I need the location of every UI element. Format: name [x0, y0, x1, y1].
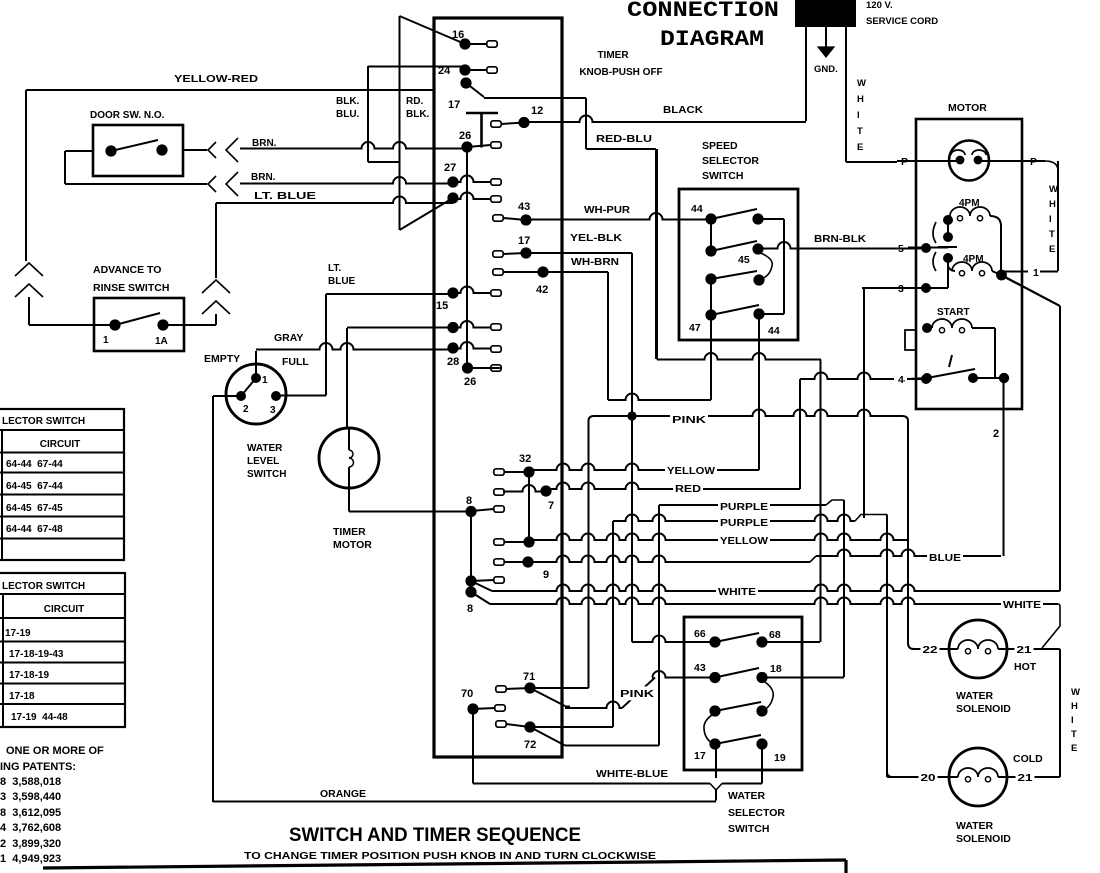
wsel contact 43	[709, 672, 720, 683]
label WHITE-BLUE	[594, 766, 670, 780]
svg-text:PINK: PINK	[672, 414, 707, 426]
svg-text:8 3,612,095: 8 3,612,095	[0, 807, 61, 819]
svg-text:1A: 1A	[155, 336, 168, 347]
wire contact 17 RED-BLU drop	[484, 97, 586, 99]
motor start switch	[922, 373, 932, 383]
motor notch	[905, 330, 916, 350]
svg-text:DIAGRAM: DIAGRAM	[660, 27, 764, 52]
svg-text:21: 21	[1018, 772, 1033, 784]
svg-text:66: 66	[694, 628, 706, 640]
rinse switch contacts	[109, 319, 120, 330]
svg-text:16: 16	[452, 29, 464, 41]
wire WHITE2	[471, 592, 490, 604]
label ORANGE	[318, 786, 368, 800]
svg-text:BLUE: BLUE	[929, 552, 961, 564]
water level contacts	[251, 373, 261, 383]
wire YELLOW2	[529, 534, 908, 541]
connector chevrons left	[15, 263, 43, 276]
svg-text:WHITE: WHITE	[1003, 599, 1041, 611]
svg-text:YEL-BLK: YEL-BLK	[570, 233, 623, 244]
svg-text:YELLOW-RED: YELLOW-RED	[174, 73, 258, 85]
svg-text:17-19: 17-19	[5, 628, 31, 639]
door switch contacts	[105, 145, 116, 156]
svg-text:T: T	[1071, 729, 1077, 740]
svg-text:32: 32	[519, 453, 531, 465]
svg-text:8: 8	[467, 603, 473, 615]
svg-text:SOLENOID: SOLENOID	[956, 833, 1011, 845]
svg-text:44: 44	[691, 203, 703, 215]
wire motor 2 riser	[1003, 378, 1005, 556]
speed wire B4	[759, 313, 784, 315]
svg-text:GND.: GND.	[814, 64, 838, 75]
svg-text:GRAY: GRAY	[274, 332, 303, 344]
svg-text:26: 26	[459, 130, 471, 142]
contact 71	[496, 686, 506, 692]
contact 12	[491, 121, 501, 127]
svg-text:SWITCH: SWITCH	[702, 170, 743, 182]
svg-text:W: W	[1071, 687, 1080, 698]
svg-text:44: 44	[768, 325, 780, 337]
svg-text:WH-PUR: WH-PUR	[584, 205, 631, 216]
svg-text:RED-BLU: RED-BLU	[596, 133, 652, 145]
motor junction 1	[996, 270, 1007, 281]
wire YELLOW upper	[529, 464, 759, 471]
wire water level 1 GRAY to contact 28	[255, 351, 257, 378]
svg-text:ONE OR MORE OF: ONE OR MORE OF	[6, 745, 104, 757]
svg-text:22: 22	[923, 644, 938, 656]
contact 8a	[465, 506, 476, 517]
label RED	[673, 481, 703, 495]
label WH-PUR	[582, 203, 632, 217]
motor coil 4PM lower	[947, 258, 949, 266]
contact 8c	[465, 586, 476, 597]
door switch box	[93, 125, 183, 176]
contact 15a	[447, 287, 458, 298]
motor centrifugal switch	[943, 215, 953, 225]
label 21 hot	[1015, 642, 1034, 656]
wsel curve 18-B3	[762, 680, 773, 711]
svg-text:PURPLE: PURPLE	[720, 501, 768, 513]
wire BLUE	[528, 556, 810, 563]
svg-text:T: T	[1049, 229, 1055, 240]
svg-text:TIMER: TIMER	[333, 526, 366, 538]
svg-text:47: 47	[689, 322, 701, 334]
speed contact row4	[705, 309, 716, 320]
svg-text:70: 70	[461, 688, 473, 700]
svg-text:YELLOW: YELLOW	[720, 535, 768, 547]
svg-text:1: 1	[103, 335, 109, 346]
svg-text:SELECTOR: SELECTOR	[728, 807, 785, 819]
svg-text:W: W	[857, 78, 866, 89]
label WH-BRN	[569, 255, 621, 268]
svg-text:BLUE: BLUE	[328, 276, 356, 287]
wire 22 feed	[907, 420, 909, 643]
wire LT.BLUE to contact 27b	[216, 197, 453, 204]
wire PURPLE2	[613, 515, 855, 522]
speed vertical B4 down	[758, 314, 760, 470]
svg-text:PURPLE: PURPLE	[720, 517, 768, 529]
svg-text:P: P	[901, 156, 908, 168]
svg-text:BRN-BLK: BRN-BLK	[814, 234, 867, 245]
svg-text:8: 8	[466, 495, 472, 507]
svg-text:8 3,588,018: 8 3,588,018	[0, 776, 61, 788]
svg-text:E: E	[1049, 244, 1055, 255]
svg-text:W: W	[1049, 184, 1058, 195]
water level switch circle	[226, 364, 286, 424]
svg-text:H: H	[1049, 199, 1056, 210]
svg-text:20: 20	[921, 772, 936, 784]
svg-text:TO CHANGE TIMER POSITION PUSH: TO CHANGE TIMER POSITION PUSH KNOB IN AN…	[244, 850, 656, 862]
label WHITE1	[716, 584, 758, 598]
svg-text:WHITE: WHITE	[718, 586, 756, 598]
svg-text:YELLOW: YELLOW	[667, 465, 715, 477]
wire YELLOW-RED	[26, 89, 434, 91]
svg-text:12: 12	[531, 105, 543, 117]
wire 17 down	[715, 744, 717, 778]
contact 15b	[447, 322, 458, 333]
wire LT.BLUE2 to contact 15a	[326, 293, 453, 295]
svg-text:I: I	[1071, 715, 1074, 726]
wire contact 24 left	[368, 66, 465, 68]
wire water level 2 to ORANGE	[213, 395, 241, 397]
speed selector box	[679, 189, 798, 340]
svg-text:ADVANCE TO: ADVANCE TO	[93, 264, 161, 276]
motor coil START	[922, 323, 932, 333]
svg-text:CONNECTION: CONNECTION	[627, 0, 779, 23]
speed vertical A4 down	[710, 315, 712, 400]
bottom table edge	[43, 860, 846, 868]
svg-text:START: START	[937, 307, 970, 318]
svg-text:SPEED: SPEED	[702, 140, 738, 152]
svg-text:H: H	[1071, 701, 1078, 712]
svg-text:MOTOR: MOTOR	[333, 539, 372, 551]
wire service cord right (WHITE riser)	[845, 27, 847, 162]
svg-text:WATER: WATER	[956, 820, 994, 832]
svg-text:WATER: WATER	[247, 443, 283, 454]
svg-text:26: 26	[464, 376, 476, 388]
svg-text:E: E	[1071, 743, 1077, 754]
svg-text:LECTOR SWITCH: LECTOR SWITCH	[2, 416, 85, 427]
wire timer motor top to contact 15b	[346, 328, 348, 429]
contact 9	[494, 559, 504, 565]
label RED-BLU	[594, 131, 654, 145]
wire rinse right	[163, 324, 216, 326]
label PURPLE1	[718, 499, 770, 513]
svg-text:2: 2	[993, 428, 999, 440]
timer vertical 32-32b	[528, 472, 530, 542]
motor terminal 5	[908, 247, 948, 249]
wsel contact 66	[709, 636, 720, 647]
svg-text:RD.: RD.	[406, 96, 423, 107]
svg-text:71: 71	[523, 671, 535, 683]
svg-text:3 3,598,440: 3 3,598,440	[0, 791, 61, 803]
motor terminal 3	[908, 287, 948, 289]
label YELLOW upper	[665, 463, 717, 477]
contact 7	[494, 489, 504, 495]
svg-text:MOTOR: MOTOR	[948, 102, 987, 114]
wire service cord left (BLACK riser)	[805, 27, 807, 121]
svg-text:27: 27	[444, 162, 456, 174]
motor terminal 4	[894, 372, 904, 384]
svg-text:1: 1	[262, 375, 268, 386]
wire 21 hot	[1007, 648, 1060, 650]
svg-text:WATER: WATER	[728, 790, 766, 802]
svg-text:SELECTOR: SELECTOR	[702, 155, 759, 167]
svg-text:I: I	[857, 110, 860, 121]
svg-text:BRN.: BRN.	[251, 172, 276, 183]
timer vertical 8-8	[470, 511, 472, 592]
svg-text:KNOB-PUSH OFF: KNOB-PUSH OFF	[579, 67, 662, 78]
label PINK2	[618, 686, 656, 700]
svg-text:68: 68	[769, 629, 781, 641]
svg-text:64-44 67-48: 64-44 67-48	[6, 524, 63, 535]
svg-text:2: 2	[243, 404, 249, 415]
timer motor circle	[319, 428, 379, 488]
svg-text:1: 1	[1033, 267, 1039, 279]
wire YEL-BLK drop	[526, 252, 632, 254]
svg-text:21: 21	[1017, 644, 1032, 656]
wire door switch left to BRN return	[65, 150, 93, 152]
wire 71 pink diagonal	[530, 688, 565, 706]
wire contact 70 drop	[472, 709, 474, 784]
svg-text:RINSE SWITCH: RINSE SWITCH	[93, 282, 169, 294]
wsel contact row4	[709, 738, 720, 749]
contact 8b	[465, 575, 476, 586]
svg-text:TIMER: TIMER	[597, 50, 629, 61]
wire motor3 corner	[864, 287, 948, 289]
svg-text:17-18-19: 17-18-19	[9, 670, 49, 681]
wire door switch right stub	[183, 149, 207, 151]
label PINK upper	[670, 412, 708, 426]
speed wire B1	[758, 218, 784, 220]
timer vertical 26-26	[466, 147, 468, 368]
label YELLOW-RED	[172, 71, 260, 85]
motor protector contacts	[956, 156, 965, 165]
contact 43	[493, 215, 503, 221]
label PURPLE2	[718, 515, 770, 529]
label 22	[921, 642, 940, 656]
svg-text:9: 9	[543, 569, 549, 581]
wire ORANGE	[213, 801, 716, 803]
connector chevrons BRN row2	[208, 176, 216, 192]
svg-text:WHITE-BLUE: WHITE-BLUE	[596, 768, 668, 780]
svg-text:P: P	[1030, 156, 1037, 168]
label LT. BLUE	[252, 189, 318, 203]
svg-text:BLU.: BLU.	[336, 109, 360, 120]
svg-text:2 3,899,320: 2 3,899,320	[0, 838, 61, 850]
wire WH-BRN drop	[543, 271, 608, 273]
svg-text:4 3,762,608: 4 3,762,608	[0, 822, 61, 834]
svg-text:SOLENOID: SOLENOID	[956, 703, 1011, 715]
svg-text:BLACK: BLACK	[663, 104, 703, 116]
motor box	[916, 119, 1022, 409]
wire white right column	[1059, 649, 1061, 777]
svg-text:CIRCUIT: CIRCUIT	[40, 439, 81, 450]
speed contact 44	[705, 213, 716, 224]
speed vertical A1-A2	[710, 219, 712, 251]
pink junction dot	[627, 411, 636, 420]
service cord plug	[795, 0, 856, 27]
speed vertical A3-A4	[710, 279, 712, 315]
svg-text:CIRCUIT: CIRCUIT	[44, 604, 85, 615]
wire BRN2 to contact 27	[240, 177, 453, 184]
svg-text:72: 72	[524, 739, 536, 751]
motor coil 4PM upper	[950, 207, 990, 216]
svg-text:17: 17	[448, 99, 460, 111]
contact 70	[467, 703, 478, 714]
svg-text:43: 43	[518, 201, 530, 213]
water selector box	[684, 617, 802, 770]
wire PINK upper	[594, 410, 902, 417]
svg-text:64-44 67-44: 64-44 67-44	[6, 459, 63, 470]
wire H359	[657, 353, 821, 360]
svg-text:4: 4	[898, 374, 904, 386]
svg-text:LECTOR SWITCH: LECTOR SWITCH	[2, 581, 85, 592]
svg-text:17-18: 17-18	[9, 691, 35, 702]
svg-text:E: E	[857, 142, 863, 153]
wire 72 horizontal	[530, 726, 613, 728]
label BLACK	[661, 102, 705, 116]
rinse switch box	[94, 298, 184, 351]
ground arrow GND.	[825, 27, 827, 47]
wire WHITE-BLUE	[473, 783, 710, 785]
svg-text:SWITCH: SWITCH	[247, 469, 286, 480]
svg-text:LEVEL: LEVEL	[247, 456, 279, 467]
svg-text:BLK.: BLK.	[336, 96, 360, 107]
svg-text:SWITCH AND TIMER SEQUENCE: SWITCH AND TIMER SEQUENCE	[289, 825, 581, 846]
contact 17b	[493, 251, 503, 257]
label YEL-BLK	[568, 231, 624, 245]
svg-text:15: 15	[436, 300, 448, 312]
wire BLACK contact 12 to service cord	[524, 116, 806, 122]
wire rinse left	[29, 324, 115, 326]
selector switch table 1 box	[0, 409, 124, 560]
svg-text:17-19 44-48: 17-19 44-48	[11, 712, 68, 723]
wire 43 row entry	[652, 671, 715, 678]
svg-text:43: 43	[694, 662, 706, 674]
contact 12 jumper bar	[480, 113, 483, 148]
speed contact row2	[705, 245, 716, 256]
svg-text:LT. BLUE: LT. BLUE	[254, 191, 316, 202]
svg-text:45: 45	[738, 254, 750, 266]
label YELLOW2	[718, 533, 770, 547]
svg-text:28: 28	[447, 356, 459, 368]
wire BRN-BLK to motor 5	[758, 242, 921, 249]
contact 28	[447, 342, 458, 353]
label WHITE2	[1001, 597, 1043, 611]
svg-text:64-45 67-45: 64-45 67-45	[6, 503, 63, 514]
svg-text:17: 17	[518, 235, 530, 247]
wire water level 3 FULL riser	[276, 395, 326, 397]
hot solenoid coil	[950, 648, 959, 650]
wire WHITE1	[471, 581, 492, 591]
contact 32	[494, 469, 504, 475]
wire timer motor bottom to contact 8	[348, 488, 350, 512]
label BLUE	[927, 550, 963, 564]
wire motor 4 horizontal	[800, 373, 921, 380]
svg-text:17-18-19-43: 17-18-19-43	[9, 649, 64, 660]
timer cam vertical	[399, 16, 401, 230]
svg-text:19: 19	[774, 752, 786, 764]
motor protector circle	[949, 141, 989, 181]
timer motor winding	[348, 429, 350, 450]
svg-text:I: I	[1049, 214, 1052, 225]
label 21 cold	[1016, 770, 1035, 784]
cold solenoid coil	[950, 776, 959, 778]
wsel curve A3-A4	[704, 713, 715, 744]
svg-text:BLK.: BLK.	[406, 109, 430, 120]
contact 32b	[494, 539, 504, 545]
wire RED	[546, 483, 800, 489]
svg-text:5: 5	[898, 243, 904, 255]
wire motor 1 diagonal	[1002, 275, 1061, 306]
svg-text:1 4,949,923: 1 4,949,923	[0, 853, 61, 865]
speed contact row3	[705, 273, 716, 284]
svg-text:SWITCH: SWITCH	[728, 823, 769, 835]
contact 72	[496, 721, 506, 727]
wire PURPLE1	[659, 504, 826, 506]
wire BRN1 to contact 26top	[240, 142, 467, 148]
svg-text:COLD: COLD	[1013, 753, 1043, 765]
timer box outline	[434, 18, 562, 757]
contact 42	[493, 269, 503, 275]
contact 26 top	[461, 141, 472, 152]
wire 20 feed	[887, 776, 949, 778]
connector chevrons BRN row1	[208, 142, 216, 158]
svg-text:WH-BRN: WH-BRN	[571, 257, 619, 268]
cold solenoid circle	[949, 748, 1007, 806]
svg-text:7: 7	[548, 500, 554, 512]
svg-text:EMPTY: EMPTY	[204, 353, 240, 365]
wire P left	[897, 160, 949, 162]
contact 24	[459, 64, 470, 75]
contact 26 bottom	[462, 362, 473, 373]
svg-text:DOOR SW. N.O.: DOOR SW. N.O.	[90, 110, 165, 121]
wire YEL-BLK to 66	[632, 636, 715, 643]
svg-text:3: 3	[270, 405, 276, 416]
speed curve B2-B3	[758, 252, 772, 279]
selector switch table 2 box	[0, 573, 125, 727]
wire 72 diagonal	[530, 727, 565, 746]
svg-text:ING PATENTS:: ING PATENTS:	[0, 761, 76, 773]
wire 18 out	[762, 677, 844, 679]
wire BLUE right	[816, 550, 1001, 556]
svg-text:SERVICE CORD: SERVICE CORD	[866, 16, 938, 27]
svg-text:18: 18	[770, 663, 782, 675]
svg-text:WATER: WATER	[956, 690, 994, 702]
svg-text:BRN.: BRN.	[252, 138, 277, 149]
label 20	[919, 770, 938, 784]
svg-text:17: 17	[694, 750, 706, 762]
svg-text:RED: RED	[675, 483, 701, 495]
wire BLK.BLU. vertical	[367, 66, 369, 162]
svg-text:FULL: FULL	[282, 356, 309, 368]
svg-text:64-45 67-44: 64-45 67-44	[6, 481, 63, 492]
wire 19 down	[761, 744, 763, 784]
svg-text:T: T	[857, 126, 863, 137]
contact 27b	[447, 192, 458, 203]
svg-text:120 V.: 120 V.	[866, 0, 893, 11]
label 4 motor	[895, 372, 907, 386]
wire 68 out	[762, 641, 820, 643]
svg-text:HOT: HOT	[1014, 661, 1037, 673]
contact 17 top	[460, 77, 471, 88]
connector chevrons rinse right	[202, 280, 230, 293]
timer cam bottom diagonal to contact 27b	[400, 198, 454, 230]
wire PINK2 segment	[565, 702, 622, 709]
svg-text:LT.: LT.	[328, 263, 341, 274]
hot solenoid circle	[949, 620, 1007, 678]
